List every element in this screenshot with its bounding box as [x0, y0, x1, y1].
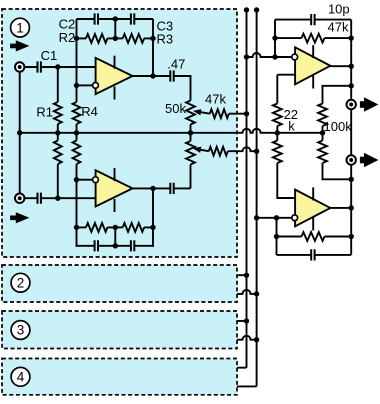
channel block 2 (dashed box) [2, 265, 237, 302]
resistor 47k ch-lower [209, 147, 257, 156]
junction block3 bus2 [254, 337, 259, 342]
svg-text:47k: 47k [205, 91, 226, 106]
wire U4 inv row [257, 217, 292, 219]
wire U2 output row [133, 187, 191, 189]
output arrow 4 [360, 153, 379, 167]
label .47 [167, 56, 185, 71]
junction U4 inv bus2 [254, 215, 259, 220]
junction 47k bus2 [254, 149, 259, 154]
junction U2 out [150, 186, 155, 191]
resistor 100k upper [318, 104, 327, 133]
resistor R3 [77, 34, 154, 43]
svg-text:100k: 100k [324, 119, 353, 134]
svg-text:R4: R4 [81, 104, 98, 119]
wire fb node vertical [274, 20, 276, 57]
capacitor C7 [131, 240, 134, 251]
wire U1 inv input [77, 84, 93, 86]
capacitor C2 [95, 13, 98, 24]
power pin U3 bottom [312, 76, 314, 89]
bubble U1 inverting [93, 83, 99, 89]
wire input2 row [20, 197, 96, 199]
junction input-link tap [17, 130, 22, 135]
capacitor C4 [38, 193, 41, 204]
svg-text:k: k [288, 118, 295, 133]
bus line 2 top terminal [254, 7, 259, 12]
channel block 3 (dashed box) [2, 311, 237, 349]
bubble U4 inverting [292, 215, 298, 221]
output arrow 3 [360, 97, 379, 111]
wire output node1 vertical [152, 19, 154, 76]
junction 22k mid [275, 130, 280, 135]
wire C6C7 bottom row [77, 245, 154, 247]
svg-text:1: 1 [16, 20, 24, 35]
junction node A bottom [55, 196, 60, 201]
junction U4 inv node [274, 215, 279, 220]
label circled 1 [11, 18, 30, 37]
wire U3 inv row [247, 53, 292, 57]
input arrow 2 [10, 212, 29, 223]
wire U3 output [330, 65, 351, 67]
junction U4 out [349, 205, 354, 210]
junction mid top [113, 16, 118, 21]
junction fb node res [272, 35, 277, 40]
wire 100k branch top [323, 86, 352, 104]
power pin U1 bottom [114, 87, 116, 100]
label circled 4 [11, 367, 30, 386]
wire mid tap top [114, 19, 116, 38]
wiper arrow pot1 [193, 109, 210, 115]
potentiometer 50k upper [186, 101, 195, 133]
wiper arrow pot2 [193, 147, 209, 153]
label circled 3 [11, 321, 30, 340]
wire input1 row [20, 66, 96, 68]
wire U4 output [330, 207, 351, 209]
svg-text:3: 3 [17, 323, 25, 338]
label circled 2 [11, 273, 30, 292]
op-amp U2 [96, 170, 133, 206]
resistor R4b [73, 133, 81, 247]
resistor 100k lower [318, 133, 351, 180]
junction B inv2 [74, 177, 79, 182]
bus line 1 [237, 10, 247, 368]
capacitor .47 upper [170, 70, 173, 81]
label 10p [328, 1, 350, 16]
channel block 4 (dashed box) [2, 359, 237, 395]
svg-text:R3: R3 [157, 32, 174, 47]
resistor 47k fb upper [275, 34, 351, 43]
junction 47k bus1 [244, 111, 249, 116]
label 50k [165, 101, 186, 116]
input terminal J2 [15, 194, 24, 203]
wire U1 output row [133, 76, 191, 101]
label 47k ch-upper [205, 91, 226, 106]
junction mid pot [188, 130, 193, 135]
junction 100k mid [320, 130, 325, 135]
bus line 2 [237, 10, 257, 387]
bubble U2 inverting [93, 177, 99, 183]
junction A mid [55, 130, 60, 135]
resistor R1 [54, 67, 62, 133]
junction 100k bottom [349, 177, 354, 182]
resistor R4 [73, 102, 81, 133]
junction 100k branch [349, 83, 354, 88]
junction res mid [113, 36, 118, 41]
svg-text:4: 4 [17, 370, 25, 385]
label 22 [284, 107, 298, 122]
resistor R6 [107, 223, 153, 232]
op-amp U4 [295, 190, 330, 227]
junction fb mid [113, 225, 118, 230]
label R2 [59, 30, 76, 45]
input arrow 1 [10, 40, 29, 51]
capacitor 10p fb2 [311, 249, 314, 260]
resistor R2 [86, 34, 107, 43]
label C2 [59, 17, 76, 32]
svg-text:50k: 50k [165, 101, 186, 116]
junction B mid [74, 130, 79, 135]
svg-text:C1: C1 [41, 48, 58, 63]
power pin U4 top [312, 187, 314, 200]
junction node A top [55, 64, 60, 69]
label C3 [157, 19, 174, 34]
junction fb2 left [274, 234, 279, 239]
junction block3 bus1 [244, 318, 249, 323]
label R3 [157, 32, 174, 47]
bus line 1 top terminal [244, 7, 249, 12]
junction res right [150, 36, 155, 41]
wire 10p row [275, 19, 351, 21]
junction cap mid [113, 243, 118, 248]
power pin U3 top [312, 45, 314, 58]
wire output node2 vertical [152, 188, 154, 247]
svg-text:.47: .47 [167, 56, 185, 71]
wire U2 inv input [77, 179, 93, 181]
junction U3 inv bus1 [244, 54, 249, 59]
junction U3 inv node [272, 54, 277, 59]
power pin U2 bottom [114, 199, 116, 212]
wire block3 stub A [237, 320, 247, 322]
channel block 1 (dashed box) [2, 9, 237, 257]
junction B inv1 [74, 83, 79, 88]
input terminal J1 [15, 62, 24, 71]
resistor 47k fb2 [277, 232, 352, 241]
junction block2 bus2 [254, 291, 259, 296]
label R1 [36, 105, 53, 120]
capacitor C1 [38, 61, 41, 72]
resistor R1b [54, 133, 62, 198]
capacitor C6 [95, 240, 98, 251]
wire mid row [20, 129, 323, 133]
wire block2 stub A [237, 274, 247, 276]
capacitor .47 lower [170, 183, 173, 194]
label 100k [324, 119, 353, 134]
svg-text:2: 2 [17, 275, 25, 290]
power pin U1 top [114, 56, 116, 69]
junction fb2 right [349, 234, 354, 239]
junction fb right [150, 225, 155, 230]
output terminal J3 [347, 100, 356, 109]
wire block3 stub B [237, 336, 257, 340]
resistor 22k lower [273, 133, 295, 198]
capacitor C3 [131, 13, 134, 24]
label C1 [41, 48, 58, 63]
wire right vertical [350, 20, 352, 255]
power pin U4 bottom [312, 218, 314, 231]
wire fb2 cap row [277, 254, 352, 256]
power pin U2 top [114, 168, 116, 181]
op-amp U3 [295, 47, 330, 84]
junction block2 bus1 [244, 273, 249, 278]
resistor 47k ch-upper [210, 109, 247, 118]
wire fb mid tap [114, 227, 116, 245]
capacitor 10p [311, 14, 314, 25]
op-amp U1 [96, 58, 133, 94]
label 47k fb [328, 19, 349, 34]
junction 47k right [349, 35, 354, 40]
svg-text:47k: 47k [328, 19, 349, 34]
resistor R5 [77, 223, 108, 232]
svg-text:10p: 10p [328, 1, 350, 16]
junction U3 out [349, 63, 354, 68]
junction fb left [74, 225, 79, 230]
junction B top-res [74, 36, 79, 41]
wire node B vertical top [76, 19, 78, 102]
label R4 [81, 104, 98, 119]
resistor 22k upper [273, 75, 282, 133]
bubble U3 inverting [292, 54, 298, 60]
wire C2C3 top row [77, 18, 154, 20]
output terminal J4 [347, 155, 356, 164]
wire U3 noninv row [277, 74, 295, 76]
potentiometer 50k lower [186, 133, 195, 189]
svg-text:R1: R1 [36, 105, 53, 120]
junction U1 out [150, 73, 155, 78]
wire block2 stub B [237, 290, 257, 294]
svg-text:R2: R2 [59, 30, 76, 45]
wire input-link vertical [19, 67, 21, 198]
label k [288, 118, 295, 133]
wire fb2 left vertical [276, 218, 278, 255]
